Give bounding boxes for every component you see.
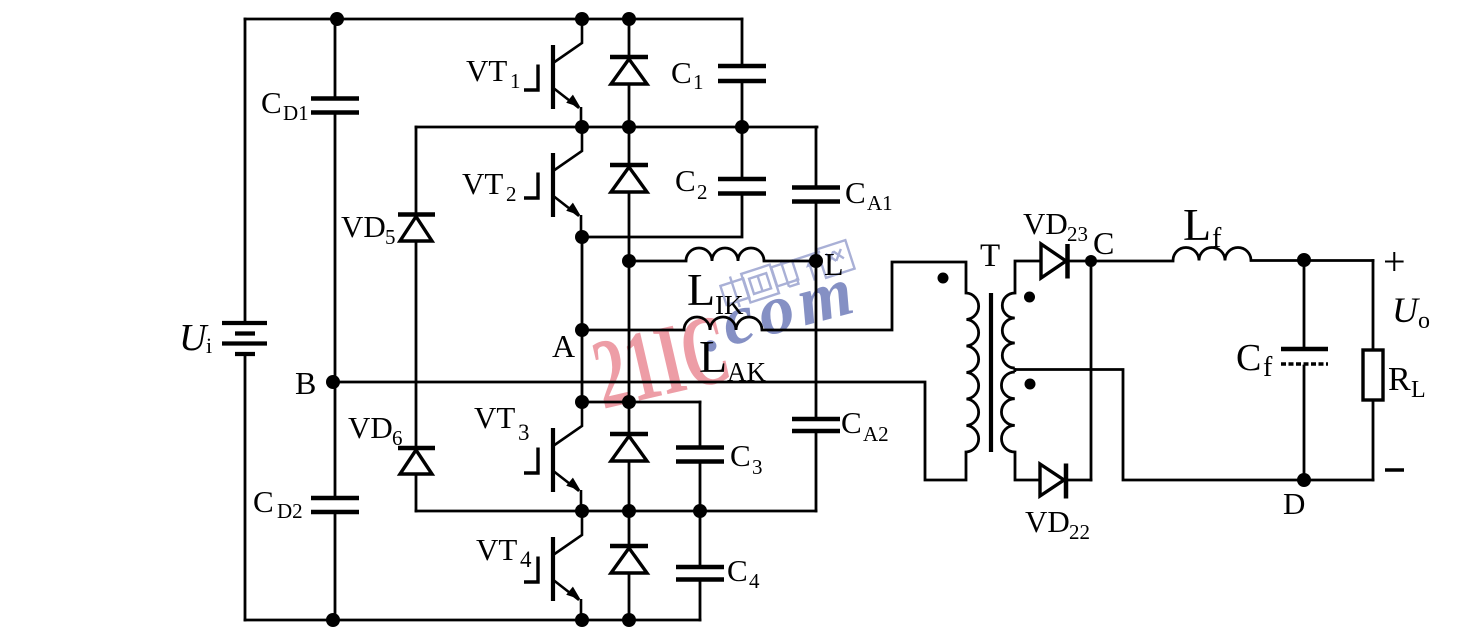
- inductor LAK: [684, 317, 762, 330]
- transistor VT3: [524, 402, 582, 511]
- capacitor CD2: [311, 498, 359, 512]
- wire VT mid rail: [581, 237, 584, 402]
- transistor VT4: [524, 511, 582, 620]
- svg-text:4: 4: [520, 547, 532, 572]
- node dots row 261 and node L: [622, 254, 636, 268]
- svg-text:C: C: [845, 175, 866, 210]
- svg-text:C: C: [727, 553, 748, 588]
- svg-text:VD: VD: [1025, 504, 1070, 539]
- svg-text:C: C: [675, 163, 696, 198]
- transformer T primary winding: [967, 293, 979, 452]
- diode VD6 clamp: [398, 448, 435, 474]
- capacitor C3: [676, 448, 724, 462]
- transformer polarity dot primary: [938, 273, 949, 284]
- node dots bottom rail: [326, 613, 340, 627]
- wire C2 branch and row 237: [582, 127, 742, 237]
- svg-text:2: 2: [506, 182, 517, 206]
- svg-text:VD: VD: [1023, 206, 1068, 241]
- svg-text:L: L: [687, 264, 715, 315]
- watermark .com blue script: [690, 251, 866, 367]
- battery U1 input source: [222, 323, 267, 354]
- wire row 402: [582, 401, 700, 404]
- svg-text:L: L: [699, 331, 727, 382]
- diode D2 freewheel of VT2: [610, 165, 648, 192]
- svg-text:U: U: [1392, 290, 1420, 330]
- svg-text:T: T: [980, 238, 1000, 274]
- inductor Lf: [1173, 248, 1251, 261]
- svg-text:D2: D2: [277, 499, 303, 523]
- transformer polarity dot secondary top: [1024, 292, 1035, 303]
- svg-text:L: L: [824, 246, 844, 282]
- node C dot: [1085, 255, 1097, 267]
- wire secondary bottom lead and VD22 row: [1015, 452, 1091, 480]
- diode VD23 rectifier: [1041, 244, 1068, 279]
- svg-text:2: 2: [697, 180, 708, 204]
- node B dot: [326, 375, 340, 389]
- svg-text:C: C: [671, 55, 692, 90]
- svg-text:3: 3: [518, 420, 530, 445]
- diode D4 freewheel of VT4: [610, 546, 648, 573]
- capacitor CA1: [792, 188, 840, 202]
- transformer T secondary bottom winding: [1001, 372, 1014, 452]
- svg-text:5: 5: [385, 225, 396, 249]
- svg-text:D: D: [1283, 486, 1305, 521]
- svg-text:C: C: [261, 85, 282, 120]
- svg-text:o: o: [1418, 308, 1430, 334]
- node dots second rail: [575, 120, 589, 134]
- svg-text:D1: D1: [283, 101, 309, 125]
- svg-text:C: C: [841, 405, 862, 440]
- svg-text:C: C: [1236, 337, 1261, 379]
- wire Cf branch: [1303, 260, 1306, 480]
- diode VD22 rectifier: [1040, 464, 1066, 499]
- node dots output: [1297, 253, 1311, 267]
- transformer secondary joining stub: [1013, 368, 1016, 372]
- transformer T secondary top winding: [1002, 293, 1015, 368]
- capacitor CD1: [311, 99, 359, 113]
- svg-text:f: f: [1212, 223, 1222, 254]
- svg-text:1: 1: [510, 69, 521, 93]
- wire left rail: [244, 19, 247, 620]
- svg-text:22: 22: [1069, 520, 1090, 544]
- diode D3 freewheel of VT3: [610, 434, 648, 461]
- svg-text:VT: VT: [476, 532, 517, 567]
- svg-text:4: 4: [749, 569, 760, 593]
- svg-text:f: f: [1263, 352, 1273, 383]
- node dots row 511: [575, 504, 589, 518]
- capacitor C2: [718, 179, 766, 194]
- transistor VT2: [524, 127, 582, 237]
- wire CD rail: [334, 19, 337, 620]
- svg-text:VT: VT: [466, 53, 507, 88]
- wire top rail: [245, 18, 742, 21]
- transformer polarity dot secondary bottom: [1025, 379, 1036, 390]
- svg-text:1: 1: [693, 70, 704, 94]
- svg-text:C: C: [730, 438, 751, 473]
- capacitor CA2: [792, 419, 840, 431]
- wire RL branch: [1372, 261, 1375, 481]
- wire row 511: [416, 510, 816, 513]
- svg-text:C: C: [253, 484, 274, 519]
- node dots top rail: [330, 12, 344, 26]
- wire clamp-diode rail: [415, 127, 418, 511]
- wire CA branch: [815, 127, 818, 511]
- watermark 21IC red text: [583, 293, 740, 431]
- wire C4 branch: [699, 511, 702, 620]
- svg-text:VD: VD: [348, 410, 393, 445]
- wire freewheel-diode rail: [628, 19, 631, 620]
- diode D1 freewheel of VT1: [610, 57, 648, 84]
- wire node C row: [1068, 259, 1373, 262]
- node dot row 237: [575, 230, 589, 244]
- wire bottom rail: [245, 619, 700, 622]
- svg-text:B: B: [295, 365, 316, 401]
- diode VD5 clamp: [398, 215, 435, 242]
- svg-text:IK: IK: [715, 290, 744, 320]
- svg-text:R: R: [1388, 361, 1411, 398]
- svg-text:U: U: [179, 317, 209, 359]
- svg-text:A2: A2: [863, 422, 889, 446]
- svg-text:i: i: [206, 333, 212, 358]
- capacitor C1: [718, 66, 766, 81]
- wire C vertical: [1090, 261, 1093, 480]
- wire center tap to D rail: [1015, 370, 1373, 481]
- svg-text:L: L: [1183, 199, 1211, 250]
- capacitor C4: [676, 567, 724, 580]
- transistor VT1: [524, 19, 582, 127]
- node A dot: [575, 323, 589, 337]
- wire C1 branch: [741, 19, 744, 127]
- svg-text:A1: A1: [867, 191, 893, 215]
- svg-text:VT: VT: [462, 166, 503, 201]
- svg-text:C: C: [1093, 225, 1114, 261]
- svg-text:3: 3: [752, 455, 763, 479]
- wire C3 branch: [699, 402, 702, 511]
- svg-text:VT: VT: [474, 400, 515, 435]
- wire node B row to transformer primary bottom: [333, 382, 966, 480]
- wire node A row to transformer primary top: [582, 262, 966, 330]
- wire second rail: [416, 126, 817, 129]
- resistor RL: [1363, 350, 1383, 400]
- capacitor Cf: [1281, 349, 1328, 364]
- transformer T core: [989, 293, 993, 452]
- svg-text:6: 6: [392, 426, 403, 450]
- wire L node row: [629, 260, 816, 263]
- inductor LIK: [686, 248, 764, 261]
- svg-text:A: A: [552, 328, 575, 364]
- svg-text:23: 23: [1067, 222, 1088, 246]
- wire secondary top lead: [1015, 261, 1041, 293]
- node dots row 402: [575, 395, 589, 409]
- label minus: [1385, 468, 1404, 472]
- svg-text:VD: VD: [341, 209, 386, 244]
- watermark chinese characters outlined: [719, 239, 855, 311]
- svg-text:L: L: [1411, 377, 1426, 403]
- svg-text:AK: AK: [727, 357, 766, 387]
- svg-text:+: +: [1383, 239, 1406, 284]
